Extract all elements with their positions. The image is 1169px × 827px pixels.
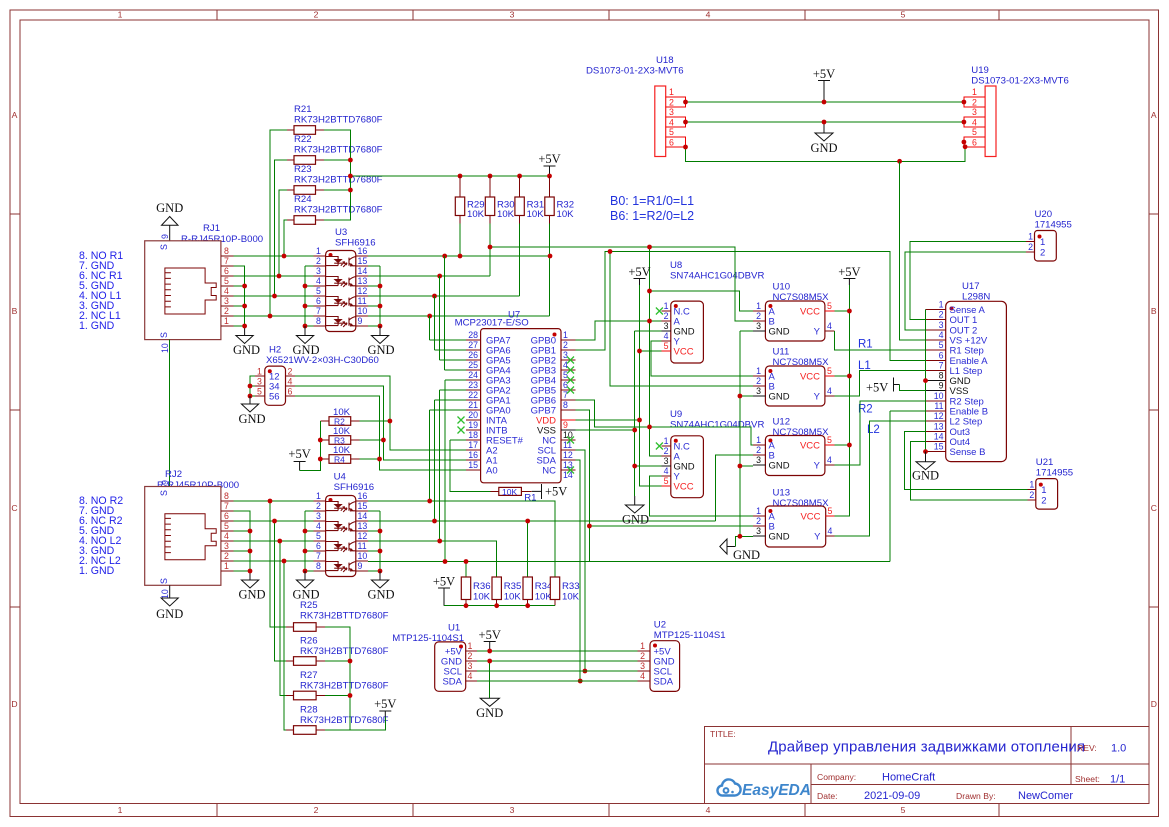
svg-text:5: 5: [972, 127, 977, 137]
svg-text:14: 14: [358, 266, 368, 276]
wire RESET# to R1: [450, 440, 490, 491]
svg-text:RK73H2BTTD7680F: RK73H2BTTD7680F: [300, 681, 389, 692]
svg-text:VCC: VCC: [674, 482, 694, 493]
wire R28 left from RJ2.2: [284, 561, 286, 730]
wire RJ1.4 row to U3.5: [233, 295, 313, 297]
wire R23 left to RJ1.6: [279, 190, 287, 276]
resistor R32 10K: [545, 176, 574, 224]
svg-text:2: 2: [1028, 242, 1033, 252]
connector RJ1 R-RJ45R10P-B000: [145, 223, 263, 353]
svg-text:2: 2: [1040, 248, 1045, 259]
svg-text:12: 12: [358, 286, 368, 296]
svg-text:R23: R23: [294, 164, 312, 175]
wire RJ2.3 stub: [233, 550, 250, 552]
svg-text:6: 6: [563, 380, 568, 390]
resistor R29 10K: [455, 176, 484, 224]
svg-text:19: 19: [468, 420, 478, 430]
svg-text:1: 1: [118, 10, 123, 20]
svg-text:H2: H2: [269, 345, 281, 356]
wire GND vertical U8 U9 VSS: [635, 331, 662, 496]
svg-text:1: 1: [664, 301, 669, 311]
svg-text:4: 4: [664, 331, 669, 341]
svg-text:U3: U3: [335, 227, 347, 238]
wire R31 bottom to row296: [519, 224, 521, 297]
svg-text:1: 1: [224, 316, 229, 326]
svg-text:U17: U17: [962, 281, 980, 292]
GND flag U4 emitters: [367, 571, 394, 602]
svg-text:1.0: 1.0: [1111, 743, 1126, 755]
svg-text:3: 3: [939, 320, 944, 330]
wire U4 emitters to GND: [368, 511, 380, 571]
svg-text:16: 16: [468, 450, 478, 460]
module U2 MTP125-1104S1: [637, 620, 725, 692]
svg-text:18: 18: [468, 430, 478, 440]
svg-text:+5V: +5V: [628, 265, 650, 279]
svg-text:EasyEDA: EasyEDA: [742, 782, 811, 799]
svg-text:VCC: VCC: [674, 347, 694, 358]
svg-text:B0: 1=R1/0=L1: B0: 1=R1/0=L1: [610, 194, 694, 208]
svg-text:+5V: +5V: [545, 485, 567, 499]
svg-text:9: 9: [939, 381, 944, 391]
svg-text:GND: GND: [810, 141, 837, 155]
resistor R24 RK73H2BTTD7680F: [287, 194, 383, 224]
svg-text:GND: GND: [367, 588, 394, 602]
svg-text:6: 6: [669, 138, 674, 148]
wire R22 left to RJ1.4: [275, 160, 288, 296]
svg-text:7: 7: [316, 306, 321, 316]
wire SDA vertical: [575, 460, 580, 681]
wire GPB1 to EnableA row: [575, 252, 925, 361]
svg-text:R24: R24: [294, 194, 312, 205]
svg-text:16: 16: [358, 246, 368, 256]
pin list RJ2: [79, 495, 123, 577]
wire U13.Y to L2 Step: [835, 421, 926, 536]
svg-text:GND: GND: [292, 343, 319, 357]
connector U21 1714955: [1027, 457, 1073, 509]
GND flag RJ2 bus: [238, 571, 265, 602]
svg-text:8: 8: [316, 561, 321, 571]
svg-text:4: 4: [827, 386, 832, 396]
svg-text:17: 17: [468, 440, 478, 450]
GND flag U3 cathodes: [292, 326, 319, 357]
resistor R22 RK73H2BTTD7680F: [287, 134, 383, 164]
wire U18.4 to U19.4: [686, 121, 964, 123]
svg-text:2: 2: [640, 651, 645, 661]
svg-text:1: 1: [756, 301, 761, 311]
title block: [704, 727, 1149, 804]
svg-text:3: 3: [224, 541, 229, 551]
wire VSS flag: [900, 385, 926, 391]
svg-text:GND: GND: [238, 588, 265, 602]
svg-text:3: 3: [664, 456, 669, 466]
wire R4 right to A0 net: [360, 458, 380, 460]
svg-text:RJ1: RJ1: [203, 223, 220, 234]
svg-text:1: 1: [1029, 480, 1034, 490]
svg-text:3: 3: [316, 266, 321, 276]
svg-text:9: 9: [160, 480, 170, 485]
wire +5V vertical U8 U9 VDD: [640, 285, 662, 486]
svg-text:RK73H2BTTD7680F: RK73H2BTTD7680F: [294, 205, 383, 216]
wire U13.B row: [589, 525, 753, 527]
svg-text:56: 56: [269, 392, 280, 403]
wire RJ1.2 row to U3.7: [233, 315, 313, 317]
svg-text:+5V: +5V: [538, 152, 560, 166]
svg-text:8: 8: [316, 316, 321, 326]
svg-text:10: 10: [160, 343, 170, 353]
svg-text:4: 4: [828, 526, 833, 536]
connector U19 DS1073-01-2X3-MVT6: [964, 65, 1069, 157]
svg-text:3: 3: [510, 805, 515, 815]
svg-text:23: 23: [468, 380, 478, 390]
svg-text:5: 5: [224, 521, 229, 531]
wire +5V to R2 R3 R4: [300, 421, 321, 471]
svg-text:1. GND: 1. GND: [79, 565, 115, 577]
svg-text:1: 1: [316, 246, 321, 256]
svg-text:Sheet:: Sheet:: [1075, 774, 1100, 784]
svg-text:GND: GND: [156, 201, 183, 215]
svg-text:2: 2: [664, 446, 669, 456]
svg-text:VCC: VCC: [800, 512, 820, 523]
svg-text:9: 9: [358, 316, 363, 326]
svg-text:11: 11: [934, 401, 943, 411]
resistor R3 10K: [320, 426, 359, 446]
wire GPB7 vertical: [575, 410, 589, 562]
svg-text:3: 3: [468, 661, 473, 671]
wire GPA0 stub: [430, 409, 467, 411]
junction dots RJ2 rows: [248, 499, 287, 574]
wire RJ1.3 stub: [233, 305, 244, 307]
svg-text:2: 2: [224, 551, 229, 561]
GND flag U3 emitters: [367, 326, 394, 357]
svg-text:SN74AHC1G04DBVR: SN74AHC1G04DBVR: [670, 420, 764, 431]
IC U7 MCP23017-E/SO: [455, 310, 576, 483]
svg-text:22: 22: [468, 390, 478, 400]
wire VDD to +5V vertical: [575, 419, 639, 421]
wire VSS to GND vertical: [575, 429, 634, 431]
svg-text:10K: 10K: [497, 209, 515, 220]
svg-text:14: 14: [934, 432, 944, 442]
svg-text:Drawn By:: Drawn By:: [956, 791, 996, 801]
svg-text:2: 2: [468, 651, 473, 661]
GPA bundle verticals: [430, 256, 445, 562]
svg-text:4: 4: [316, 521, 321, 531]
wire R25-R28 right +5V: [325, 627, 385, 730]
svg-text:1. GND: 1. GND: [79, 320, 115, 332]
svg-text:2: 2: [664, 311, 669, 321]
svg-text:10: 10: [358, 306, 368, 316]
svg-text:16: 16: [358, 491, 368, 501]
svg-text:SFH6916: SFH6916: [334, 482, 375, 493]
svg-text:6: 6: [316, 296, 321, 306]
GND flag above RJ1: [156, 201, 183, 241]
svg-text:C: C: [1151, 503, 1157, 513]
svg-text:1: 1: [257, 367, 262, 377]
AND gate U13 NC7S08M5X: [753, 488, 834, 548]
connector U20 1714955: [1026, 209, 1072, 261]
wire H2.2 to MCP A2: [295, 376, 466, 450]
svg-text:R21: R21: [294, 104, 312, 115]
svg-text:VCC: VCC: [800, 372, 820, 383]
wire U4.12 row to R35: [368, 541, 497, 577]
wire U10.Y to R1 Step: [835, 331, 926, 350]
svg-text:GND: GND: [367, 343, 394, 357]
resistor R28 RK73H2BTTD7680F: [286, 705, 389, 735]
svg-text:U21: U21: [1036, 457, 1054, 468]
svg-text:U20: U20: [1035, 209, 1053, 220]
header H2 X6521WV-2x03H-C30D60: [255, 345, 379, 406]
svg-text:U13: U13: [773, 488, 791, 499]
svg-text:RK73H2BTTD7680F: RK73H2BTTD7680F: [300, 611, 389, 622]
svg-text:U9: U9: [670, 409, 682, 420]
optocoupler U3 SFH6916: [313, 227, 375, 332]
svg-text:Sense B: Sense B: [950, 447, 986, 458]
connector U18 DS1073-01-2X3-MVT6: [586, 55, 686, 157]
svg-text:GND: GND: [769, 532, 790, 543]
GND flag U4 cathodes: [292, 571, 319, 602]
svg-text:3: 3: [664, 321, 669, 331]
svg-text:4: 4: [939, 330, 944, 340]
svg-text:1: 1: [1028, 232, 1033, 242]
svg-text:3: 3: [510, 10, 515, 20]
junction dots R bus: [348, 158, 552, 193]
wire H2.4 to MCP A1: [295, 386, 466, 460]
svg-text:15: 15: [468, 460, 478, 470]
svg-text:U12: U12: [773, 417, 791, 428]
svg-text:5: 5: [664, 476, 669, 486]
wire R29 bottom to row256: [459, 224, 461, 257]
resistor R36 10K: [461, 577, 490, 606]
wire U18.2 to U19.2: [686, 101, 964, 103]
svg-text:Y: Y: [814, 532, 821, 543]
wire R21 left to RJ1.2: [270, 130, 287, 316]
svg-text:GND: GND: [622, 513, 649, 527]
wire RJ1.10 to RJ2.9 shield: [169, 340, 171, 487]
wire R26 left from RJ2.6: [275, 521, 287, 661]
wire U4 cathodes to GND: [305, 511, 313, 571]
junction dots U18/U19: [683, 100, 967, 164]
wire GPA4 stub: [445, 369, 467, 371]
wire U4.14 row to R34 and U12.B: [368, 521, 715, 577]
svg-text:13: 13: [934, 421, 944, 431]
svg-text:4: 4: [669, 118, 674, 128]
svg-text:2: 2: [756, 311, 761, 321]
svg-text:10K: 10K: [557, 209, 575, 220]
svg-text:U11: U11: [773, 347, 790, 358]
svg-text:15: 15: [358, 256, 368, 266]
svg-text:2: 2: [669, 98, 674, 108]
svg-text:1: 1: [640, 641, 645, 651]
wire RJ2.8 row to U4.1: [233, 500, 313, 502]
svg-text:2: 2: [939, 310, 944, 320]
wire U12.Y to R2 Step: [835, 401, 926, 465]
svg-text:RJ2: RJ2: [165, 469, 182, 480]
resistor R26 RK73H2BTTD7680F: [286, 636, 389, 666]
svg-text:7: 7: [939, 361, 944, 371]
svg-text:GND: GND: [912, 469, 939, 483]
svg-text:S: S: [159, 578, 169, 584]
svg-text:3: 3: [224, 296, 229, 306]
svg-text:RK73H2BTTD7680F: RK73H2BTTD7680F: [294, 145, 383, 156]
svg-text:GND: GND: [733, 548, 760, 562]
GND flag U17: [912, 452, 939, 483]
svg-text:R36: R36: [473, 581, 491, 592]
svg-text:Date:: Date:: [817, 791, 838, 801]
svg-text:5: 5: [827, 435, 832, 445]
svg-text:B: B: [12, 306, 18, 316]
svg-text:4: 4: [224, 286, 229, 296]
GND flag below RJ2: [156, 585, 183, 621]
svg-text:TITLE:: TITLE:: [710, 729, 736, 739]
svg-text:VCC: VCC: [800, 307, 820, 318]
svg-text:10: 10: [934, 391, 944, 401]
wire GPA7 stub: [430, 339, 467, 341]
svg-text:11: 11: [358, 296, 367, 306]
svg-text:12: 12: [358, 531, 368, 541]
svg-text:6: 6: [288, 387, 293, 397]
svg-text:D: D: [1151, 699, 1157, 709]
svg-text:A: A: [1151, 110, 1157, 120]
svg-text:GND: GND: [769, 461, 790, 472]
EasyEDA logo: [717, 779, 810, 799]
wire RJ2.5 stub: [233, 530, 250, 532]
svg-text:2: 2: [563, 340, 568, 350]
svg-text:1: 1: [756, 506, 761, 516]
wire U4.16 row to R33: [368, 501, 555, 577]
svg-text:5: 5: [563, 370, 568, 380]
junction dots U4 rows: [427, 499, 530, 564]
wire RJ2.4 row to U4.5: [233, 540, 313, 542]
svg-text:9: 9: [358, 561, 363, 571]
wire RJ2.1 stub: [233, 570, 250, 572]
svg-text:10K: 10K: [473, 592, 491, 603]
wire U8.Y to U11.A: [651, 341, 753, 376]
svg-text:20: 20: [468, 410, 478, 420]
svg-text:5: 5: [827, 366, 832, 376]
wire R2 right to A2 net: [360, 420, 390, 422]
AND gate U11 NC7S08M5X: [753, 347, 834, 407]
wire GPA6 stub: [435, 349, 467, 351]
svg-text:RK73H2BTTD7680F: RK73H2BTTD7680F: [294, 115, 383, 126]
svg-text:2: 2: [314, 10, 319, 20]
svg-text:SDA: SDA: [654, 677, 674, 688]
wire GPA5 stub: [440, 359, 467, 361]
svg-text:4: 4: [827, 455, 832, 465]
svg-text:U19: U19: [971, 65, 989, 76]
module U1 MTP125-1104S1: [392, 623, 477, 692]
svg-text:VCC: VCC: [800, 441, 820, 452]
svg-text:+5V: +5V: [479, 628, 501, 642]
AND gate U12 NC7S08M5X: [753, 417, 834, 476]
svg-text:21: 21: [468, 400, 478, 410]
svg-text:U10: U10: [773, 282, 791, 293]
svg-text:6: 6: [972, 138, 977, 148]
wire U18.6 to U19.6 rail: [686, 147, 966, 162]
svg-text:U8: U8: [670, 260, 682, 271]
svg-text:B6: 1=R2/0=L2: B6: 1=R2/0=L2: [610, 209, 694, 223]
wire GPB6 to U12.A: [575, 400, 753, 445]
wire U3.14 row to R30: [368, 275, 490, 277]
wire RJ2.6 row to U4.3: [233, 520, 313, 522]
svg-text:8: 8: [224, 246, 229, 256]
svg-text:R1: R1: [524, 493, 536, 504]
svg-text:24: 24: [468, 370, 478, 380]
svg-text:MTP125-1104S1: MTP125-1104S1: [654, 630, 726, 641]
svg-text:3: 3: [257, 377, 262, 387]
svg-text:3: 3: [756, 321, 761, 331]
svg-text:5: 5: [939, 340, 944, 350]
svg-text:2: 2: [288, 367, 293, 377]
resistor R34 10K: [523, 577, 553, 606]
svg-text:R26: R26: [300, 636, 318, 647]
resistor R35 10K: [492, 577, 521, 606]
svg-text:14: 14: [358, 511, 368, 521]
wire R32 bottom to row316: [549, 224, 551, 317]
wire H2.6 to MCP A0: [295, 396, 466, 470]
svg-text:1: 1: [939, 300, 944, 310]
wire GPB0 to U8.A row: [575, 321, 661, 340]
svg-text:2: 2: [972, 98, 977, 108]
svg-text:1: 1: [224, 561, 229, 571]
svg-text:11: 11: [358, 541, 367, 551]
svg-text:+5V: +5V: [374, 697, 396, 711]
wire +5V rail R33-36: [444, 605, 555, 607]
junction dots U3 rows: [427, 254, 552, 319]
svg-text:NC: NC: [542, 466, 556, 477]
wire RJ1.7 to GND bus: [233, 266, 244, 326]
wire row291 B0 to U10.A: [650, 291, 754, 311]
svg-text:Company:: Company:: [817, 772, 856, 782]
resistor R1 10K: [490, 487, 536, 504]
svg-text:GND: GND: [769, 327, 790, 338]
svg-text:U4: U4: [334, 472, 347, 483]
svg-text:7: 7: [316, 551, 321, 561]
svg-text:2: 2: [314, 805, 319, 815]
svg-text:5: 5: [664, 341, 669, 351]
svg-text:15: 15: [358, 501, 368, 511]
svg-text:5: 5: [669, 127, 674, 137]
junction dots mid column: [488, 245, 652, 684]
svg-text:9: 9: [160, 234, 170, 239]
svg-text:RK73H2BTTD7680F: RK73H2BTTD7680F: [300, 715, 389, 726]
+5V flag top right: [538, 152, 560, 176]
svg-text:REV:: REV:: [1077, 743, 1097, 753]
svg-text:GND: GND: [292, 588, 319, 602]
wire GND chain U10-U13: [735, 331, 753, 547]
resistor R21 RK73H2BTTD7680F: [287, 104, 383, 134]
svg-text:GND: GND: [476, 706, 503, 720]
svg-text:7: 7: [224, 501, 229, 511]
svg-text:+5V: +5V: [288, 447, 310, 461]
svg-text:R1: R1: [858, 339, 873, 351]
+5V flag R28: [374, 697, 396, 717]
svg-text:8: 8: [563, 400, 568, 410]
svg-text:6: 6: [224, 511, 229, 521]
svg-text:3: 3: [756, 386, 761, 396]
wire RJ1.5 stub: [233, 285, 244, 287]
svg-text:L2: L2: [867, 424, 880, 436]
svg-text:5: 5: [316, 531, 321, 541]
svg-text:2: 2: [756, 516, 761, 526]
svg-text:2: 2: [1029, 490, 1034, 500]
+5V flag R33-36: [433, 575, 455, 606]
svg-text:4: 4: [706, 805, 711, 815]
svg-text:3: 3: [316, 511, 321, 521]
svg-text:10K: 10K: [467, 209, 485, 220]
svg-text:RK73H2BTTD7680F: RK73H2BTTD7680F: [300, 646, 389, 657]
svg-text:1: 1: [756, 366, 761, 376]
+5V flag U8: [628, 265, 650, 285]
svg-text:3: 3: [756, 455, 761, 465]
